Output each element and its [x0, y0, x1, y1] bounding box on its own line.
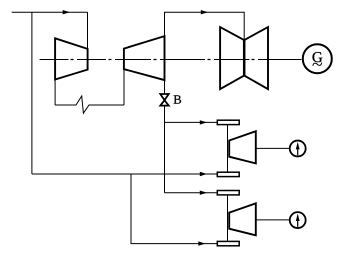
valve B [160, 94, 168, 106]
arrow on crossover pipe [201, 10, 208, 14]
turbine HP (first trapezoid) [55, 38, 88, 79]
flange BFPT2 top [217, 191, 239, 195]
arrow to BFPT2 exhaust [198, 241, 205, 245]
wire IP inlet riser [123, 69, 125, 105]
wire extraction header vertical [31, 12, 33, 174]
turbine LP double-flow (bowtie) [220, 27, 268, 89]
arrow to BFPT2 inlet [200, 191, 207, 195]
flange BFPT1 top [217, 120, 239, 124]
wire main steam top line [12, 11, 88, 13]
wire BFPT2 to pump [256, 219, 289, 221]
label B [174, 95, 181, 103]
wire exhaust run with pipe break [55, 96, 124, 113]
wire exhaust header horizontal [32, 173, 217, 175]
turbine BFPT1 [229, 131, 256, 163]
pump gauge 1 [290, 141, 306, 157]
wire valve outlet vertical [164, 106, 166, 193]
shaft centerline dash-dot [40, 59, 302, 61]
flange BFPT2 bottom [217, 241, 239, 245]
wire BFPT2 stem [227, 195, 229, 242]
arrow to BFPT1 inlet [200, 120, 207, 124]
flange BFPT1 bottom [217, 172, 239, 176]
pump gauge 2 [290, 212, 306, 228]
wire BFPT1 stem [227, 125, 229, 173]
wire HP exhaust down [54, 80, 56, 106]
wire drop to BFPT2 exhaust [131, 174, 217, 244]
wire branch to BFPT1 inlet [165, 121, 218, 123]
wire extraction line with valve [164, 80, 166, 94]
wire crossover pipe to LP [165, 12, 245, 40]
turbine BFPT2 [229, 203, 256, 235]
turbine IP (second trapezoid) [124, 36, 165, 80]
wire branch to BFPT2 inlet [165, 192, 218, 194]
arrow on exhaust header [200, 172, 207, 176]
wire HP inlet drop [87, 12, 89, 49]
wire BFPT1 to pump [256, 147, 289, 149]
generator G circle [303, 44, 332, 73]
arrow on main steam line [63, 10, 70, 14]
